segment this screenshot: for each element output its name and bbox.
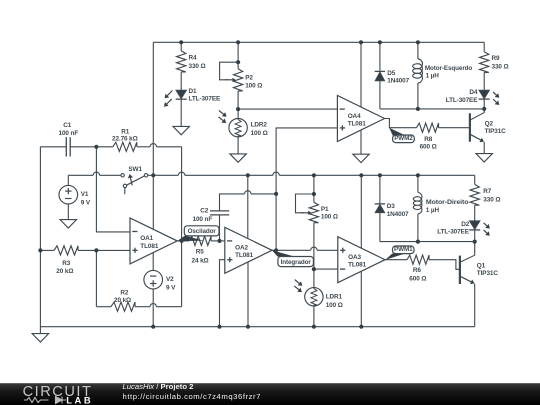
wire R3 node down to R2 row (95, 250, 97, 306)
resistor R1 (113, 142, 137, 151)
wire LDR2 node to OA4 inverting input (238, 108, 337, 110)
svg-text:LAB: LAB (66, 395, 92, 405)
svg-text:R3: R3 (62, 260, 71, 267)
wire top +V rail y=42 (153, 41, 484, 43)
voltage source V2 (144, 270, 163, 289)
wire freewheel row y=241.6 (380, 241, 475, 243)
capacitor C2 (210, 210, 229, 212)
svg-text:1N4007: 1N4007 (387, 211, 409, 218)
wire OA3 output to R6 (385, 259, 407, 261)
potentiometer P2 (234, 69, 243, 91)
wire V1 top lead (67, 175, 69, 185)
wire top rail down to D5 (379, 42, 381, 71)
svg-text:Q1: Q1 (477, 263, 486, 270)
svg-text:D4: D4 (469, 89, 478, 96)
svg-text:1 µH: 1 µH (426, 207, 440, 214)
wire rail corner down to R7 (474, 175, 476, 184)
wire R7 to D2 (474, 205, 476, 221)
wire Motor-Direito bottom lead (417, 214, 419, 242)
svg-text:TIP31C: TIP31C (477, 270, 499, 277)
wire rail down to Motor-Direito (417, 175, 419, 192)
svg-text:OA2: OA2 (235, 245, 248, 252)
svg-text:C2: C2 (200, 207, 209, 214)
svg-text:PWM1: PWM1 (394, 246, 413, 253)
wire P1 wiper loop (296, 194, 314, 213)
op-amp OA2 (225, 227, 272, 273)
wire top rail corner down to R9 (483, 42, 485, 51)
wire OA2 non-inverting input to bottom rail (220, 260, 225, 327)
wire hop over divider column on OA2 output row (311, 247, 317, 250)
wire C1 to junction (70, 146, 113, 148)
wire P1 bottom to LDR1 top (313, 223, 315, 289)
wire C2 row to integrator column (251, 193, 276, 195)
svg-text:1 µH: 1 µH (426, 73, 440, 80)
svg-text:TL081: TL081 (140, 243, 159, 250)
wire C1/R1 row left segment (40, 146, 66, 148)
svg-text:100 Ω: 100 Ω (245, 82, 262, 89)
svg-text:LTL-307EE: LTL-307EE (437, 229, 469, 236)
capacitor C1 (65, 137, 67, 156)
switch SW1 (121, 174, 124, 177)
svg-text:LDR1: LDR1 (326, 294, 343, 301)
footer logo doodle (resistor + diode) (24, 397, 66, 404)
svg-text:Motor-Esquerdo: Motor-Esquerdo (425, 65, 472, 72)
transistor Q1 (459, 256, 461, 284)
wire V1 bottom lead (67, 204, 69, 220)
resistor R6 (407, 255, 429, 264)
potentiometer P1 (309, 202, 318, 222)
svg-text:R6: R6 (413, 267, 422, 274)
ground for V1 (60, 220, 76, 228)
svg-text:Q2: Q2 (485, 120, 494, 127)
svg-text:PWM2: PWM2 (394, 135, 413, 142)
svg-text:330 Ω: 330 Ω (189, 63, 206, 70)
op-amp OA3 (338, 237, 385, 283)
svg-text:20 kΩ: 20 kΩ (56, 268, 73, 275)
wire R1 right to hop (137, 146, 150, 148)
svg-text:TL081: TL081 (348, 262, 367, 269)
resistor R4 (177, 51, 186, 72)
svg-text:Oscilador: Oscilador (188, 228, 217, 235)
wire motor-esquerdo row y=108.9 (380, 108, 484, 110)
wire bottom rail y=326.7 (40, 326, 474, 328)
wire R8 to Q2 base (439, 127, 469, 129)
svg-text:100 Ω: 100 Ω (321, 214, 338, 221)
svg-text:600 Ω: 600 Ω (409, 275, 426, 282)
wire OA3 V- pin (360, 271, 362, 327)
ground for OA4 (353, 154, 369, 162)
wire D1 cathode to ground (180, 99, 182, 126)
svg-text:OA1: OA1 (140, 235, 153, 242)
wire D2 to collector node (474, 230, 476, 242)
wire P2 wiper loop (220, 62, 239, 80)
wire left rail to ground (39, 327, 41, 334)
svg-text:LucasHix / Projeto 2: LucasHix / Projeto 2 (123, 382, 194, 391)
svg-text:D2: D2 (461, 221, 470, 228)
op-amp OA4 (337, 96, 384, 142)
svg-text:R7: R7 (483, 188, 492, 195)
wire C2 bottom lead (219, 215, 221, 241)
wire OA1 output to R5 (177, 240, 189, 242)
label box PWM1 (385, 254, 404, 260)
wire LDR2 top lead (237, 109, 239, 119)
wire hop over integrator column on rail (273, 172, 279, 175)
ground for D1 (173, 126, 189, 134)
svg-text:TL081: TL081 (235, 252, 254, 259)
wire R5 to OA2 inverting input (211, 240, 225, 242)
wire R1 row to feedback column (157, 146, 182, 148)
ground for Q2 (476, 154, 492, 162)
diode D5 (375, 70, 385, 72)
wire rail from V1 to hop (68, 174, 93, 176)
wire R4 to D1 (180, 72, 182, 90)
svg-text:P1: P1 (321, 206, 329, 213)
wire feedback column x=181.6 (R1 row to R2 row) (181, 147, 183, 307)
wire rail hop to SW1 left terminal (100, 174, 121, 176)
svg-text:R2: R2 (120, 289, 129, 296)
resistor R3 (54, 246, 78, 255)
svg-text:LTL-307EE: LTL-307EE (189, 96, 221, 103)
wire R6 to Q1 base jog (429, 260, 459, 270)
svg-text:330 Ω: 330 Ω (492, 63, 509, 70)
wire P2 bottom lead (237, 91, 239, 109)
wire hop over C1-node column on rail (93, 172, 99, 175)
ground bottom-left (32, 334, 48, 342)
wire rail down to P1 (313, 175, 315, 202)
wire R2 row to feedback column (156, 306, 181, 308)
svg-text:LDR2: LDR2 (251, 122, 268, 129)
svg-text:24 kΩ: 24 kΩ (192, 257, 209, 264)
LED D2 (470, 221, 480, 229)
label box Integrador (272, 250, 296, 257)
wire D3 bottom lead (379, 213, 381, 242)
svg-text:SW1: SW1 (128, 166, 142, 173)
wire top rail down to P2 (237, 42, 239, 68)
wire Motor-Esquerdo bottom lead (417, 83, 419, 109)
wire OA2 V- pin (247, 262, 249, 327)
svg-text:TIP31C: TIP31C (485, 128, 507, 135)
resistor R7 (470, 184, 479, 205)
svg-text:100 Ω: 100 Ω (326, 302, 343, 309)
wire Q2 collector (470, 109, 484, 120)
svg-text:OA4: OA4 (348, 113, 361, 120)
wire OA4 V+ pin (360, 42, 362, 107)
wire hop over V2 lead on R2 row (150, 304, 156, 307)
svg-text:R4: R4 (189, 55, 198, 62)
wire top rail down to Motor-Esquerdo (417, 42, 419, 59)
wire D5 bottom lead (379, 81, 381, 109)
svg-text:D5: D5 (387, 70, 396, 77)
wire LDR2 bottom lead to ground (237, 136, 239, 154)
wire OA4 V- pin to ground (360, 130, 362, 154)
label box Oscilador (177, 236, 203, 242)
wire R3 row left (40, 249, 54, 251)
wire R2 row left (96, 306, 111, 308)
wire hop over OA2 V+ pin on C2 row (245, 191, 251, 194)
svg-text:OA3: OA3 (348, 254, 361, 261)
svg-text:V2: V2 (166, 276, 174, 283)
svg-text:9 V: 9 V (81, 199, 91, 206)
resistor R2 (111, 302, 135, 311)
wire Q1 collector (460, 242, 475, 263)
svg-text:1N4007: 1N4007 (387, 78, 409, 85)
svg-text:D3: D3 (387, 203, 396, 210)
resistor R9 (480, 52, 489, 73)
wire vertical bus x=153 (top rail to OA1 V+ pin) (152, 42, 154, 229)
voltage source V1 (59, 185, 78, 204)
wire C1 node down to OA1 inverting input (96, 147, 130, 232)
wire OA2 V+ pin (247, 175, 249, 238)
transistor Q2 (469, 113, 471, 141)
svg-text:R5: R5 (196, 249, 205, 256)
svg-text:9 V: 9 V (166, 285, 176, 292)
wire rail middle (185, 174, 273, 176)
footer bar (0, 383, 540, 405)
wire OA3 V+ pin (360, 175, 362, 248)
resistor R8 (417, 123, 439, 132)
svg-text:600 Ω: 600 Ω (420, 143, 437, 150)
wire V2 bottom lead to bottom rail (152, 289, 154, 327)
op-amp OA1 (130, 218, 177, 264)
ground for LDR2 (230, 154, 246, 162)
wire LDR1 bottom to bottom rail (313, 305, 315, 327)
wire left rail x=40.4 (39, 147, 41, 327)
wire divider node to OA3 inverting input (314, 268, 338, 270)
wire hop over bus on R1 row (150, 144, 156, 147)
wire OA2 output to hop (272, 249, 311, 251)
svg-text:TL081: TL081 (348, 120, 367, 127)
wire R3 to OA1 non-inverting input (78, 249, 130, 251)
svg-text:330 Ω: 330 Ω (483, 197, 500, 204)
diode D3 (375, 203, 385, 205)
svg-text:100 nF: 100 nF (59, 130, 79, 137)
wire OA2 output to OA3 non-inverting input (317, 249, 338, 251)
wire C2 top lead to feedback row (220, 194, 245, 211)
svg-text:R8: R8 (424, 136, 433, 143)
svg-text:Integrador: Integrador (281, 259, 312, 266)
wire D4 cathode to collector node (483, 99, 485, 109)
wire top rail down to R4 (180, 42, 182, 51)
photoresistor LDR2 (229, 119, 247, 137)
svg-text:R9: R9 (492, 55, 501, 62)
svg-text:20 kΩ: 20 kΩ (114, 297, 131, 304)
wire OA4 output elbow to R8 (385, 119, 417, 128)
svg-text:V1: V1 (81, 191, 89, 198)
svg-text:LTL-307EE: LTL-307EE (446, 97, 478, 104)
wire Q1 emitter to bottom rail (474, 284, 476, 327)
wire rail right section to R7 (279, 174, 474, 176)
svg-text:C1: C1 (63, 122, 72, 129)
svg-text:D1: D1 (189, 88, 198, 95)
inductor Motor-Esquerdo (413, 59, 423, 83)
svg-text:100 Ω: 100 Ω (251, 130, 268, 137)
wire rail SW1 right terminal to hop (148, 174, 178, 176)
svg-text:22.76 kΩ: 22.76 kΩ (112, 135, 138, 142)
LED D1 (176, 90, 186, 98)
wire integrator column x=276 up to OA4 non-inverting input (276, 128, 337, 250)
resistor R5 (189, 236, 211, 245)
wire R2 right to hop (135, 306, 150, 308)
svg-text:P2: P2 (245, 75, 253, 82)
photoresistor LDR1 (305, 288, 323, 306)
svg-text:Motor-Direito: Motor-Direito (426, 199, 469, 206)
LED D4 (479, 90, 489, 98)
wire rail down to D3 (379, 175, 381, 204)
wire hop over feedback column on rail (178, 172, 184, 175)
inductor Motor-Direito (413, 193, 422, 214)
wire OA1 V- pin to V2 (152, 252, 154, 270)
svg-text:http://circuitlab.com/c7z4mq36: http://circuitlab.com/c7z4mq36frzr7 (123, 392, 261, 401)
label box PWM2 (389, 128, 405, 136)
wire Q2 emitter to ground (483, 142, 485, 154)
svg-text:100 nF: 100 nF (193, 216, 213, 223)
wire R9 to D4 (483, 73, 485, 91)
